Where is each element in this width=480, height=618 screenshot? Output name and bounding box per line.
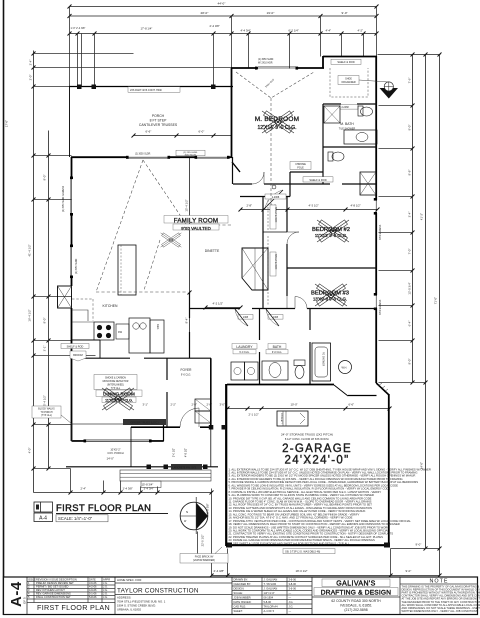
svg-text:BATH: BATH	[273, 345, 282, 349]
svg-text:8'-0": 8'-0"	[43, 175, 47, 181]
revision table	[27, 577, 115, 603]
svg-text:(2) 3050 SLDR. EGRESS: (2) 3050 SLDR. EGRESS	[63, 185, 65, 212]
svg-text:6'-4": 6'-4"	[408, 321, 412, 327]
svg-text:19'-0": 19'-0"	[267, 11, 275, 15]
svg-text:DRAFTING & DESIGN: DRAFTING & DESIGN	[321, 589, 391, 596]
left dim column	[33, 51, 35, 493]
svg-text:J.G.: J.G.	[103, 581, 108, 585]
svg-text:SHELF & ROD: SHELF & ROD	[337, 60, 354, 64]
svg-text:M. BATH: M. BATH	[340, 122, 354, 126]
wall: WC bottom	[290, 171, 323, 173]
porch front post	[209, 425, 214, 430]
svg-text:(VAPOR BARRIER): (VAPOR BARRIER)	[193, 559, 215, 562]
svg-text:9'-0": 9'-0"	[408, 125, 412, 131]
label: garage door	[283, 549, 335, 554]
wall: closet block west	[322, 104, 324, 184]
svg-text:1'-4 3/8": 1'-4 3/8"	[123, 487, 133, 491]
dim line 44'-0" top tier	[70, 6, 377, 8]
svg-text:J.G.: J.G.	[103, 592, 108, 596]
svg-text:WRITTEN DIMENSIONS ONLY - VERI: WRITTEN DIMENSIONS ONLY - VERIFY ALL JOB…	[402, 609, 479, 613]
wall: dining east / foyer	[163, 424, 165, 441]
svg-text:2'-4 3/8": 2'-4 3/8"	[214, 569, 225, 573]
svg-text:REVISION / ISSUE DESCRIPTION: REVISION / ISSUE DESCRIPTION	[36, 578, 77, 582]
wall: bath east	[309, 309, 311, 331]
label: pantry	[61, 344, 89, 349]
dim line third tier	[70, 33, 377, 35]
svg-text:FG SHOWER: FG SHOWER	[322, 352, 324, 367]
steps	[120, 470, 211, 481]
wall: dinette bay corner	[232, 162, 240, 172]
svg-text:SHELF & ROD: SHELF & ROD	[274, 207, 276, 223]
svg-text:J. GALIVAN: J. GALIVAN	[264, 578, 278, 582]
hall dim	[206, 307, 241, 309]
svg-text:4'-4": 4'-4"	[326, 29, 332, 33]
svg-text:10'-0": 10'-0"	[291, 403, 298, 407]
svg-text:TAYLOR CONSTRUCTION: TAYLOR CONSTRUCTION	[117, 588, 199, 595]
water heater	[339, 361, 352, 374]
svg-text:—: —	[289, 610, 292, 613]
kitchen island	[118, 245, 136, 295]
svg-text:41'-4 1/2": 41'-4 1/2"	[28, 244, 32, 256]
svg-text:9'X0 VAULTED: 9'X0 VAULTED	[181, 226, 210, 231]
wall: pantry	[72, 339, 101, 341]
note: girder truss	[123, 419, 166, 425]
ceiling fan: dining	[102, 388, 134, 410]
design firm: GALIVAN'S DRAFTING & DESIGN	[322, 579, 390, 587]
room label: FAMILY ROOM	[164, 216, 228, 224]
wall: west exterior	[71, 157, 73, 178]
wall: porch west edge	[130, 427, 132, 467]
bath: vanity	[262, 361, 288, 380]
door: bed2	[287, 232, 299, 244]
svg-text:3'-4": 3'-4"	[408, 212, 412, 218]
svg-text:2-GARAGE: 2-GARAGE	[282, 443, 352, 455]
window: bedroom2 east	[375, 200, 377, 213]
closet shelf dashed	[330, 68, 368, 97]
fireplace	[58, 286, 72, 308]
garage dim row	[228, 408, 390, 410]
svg-text:(TYP. ALL): (TYP. ALL)	[41, 414, 52, 417]
svg-text:28'-0": 28'-0"	[201, 11, 209, 15]
extension lines right	[379, 106, 426, 549]
svg-text:24. SEE SHEET A-1 FOR ELEVATIO: 24. SEE SHEET A-1 FOR ELEVATIONS AND SHE…	[229, 541, 350, 545]
svg-text:6'-0": 6'-0"	[199, 130, 205, 134]
svg-text:FAMILY ROOM: FAMILY ROOM	[174, 217, 219, 224]
svg-text:22'-0 1/2": 22'-0 1/2"	[201, 535, 205, 547]
svg-text:(2) 3050 SLDR.: (2) 3050 SLDR.	[135, 154, 151, 156]
svg-text:18'-0 1/2": 18'-0 1/2"	[296, 569, 308, 573]
svg-text:DESIGN:: DESIGN:	[234, 587, 245, 591]
svg-text:7'-6": 7'-6"	[408, 78, 412, 84]
svg-text:6'-6": 6'-6"	[349, 403, 355, 407]
svg-text:12'X14' 9'-0 CLG.: 12'X14' 9'-0 CLG.	[258, 125, 297, 131]
door: front entry swing	[180, 408, 199, 427]
laundry: washer/dryer	[231, 362, 245, 380]
svg-text:2-2468: 2-2468	[342, 107, 350, 109]
svg-text:2'-1 1/2": 2'-1 1/2"	[249, 413, 259, 417]
mbath: toilet	[358, 106, 363, 116]
svg-text:PORCH: PORCH	[152, 114, 165, 118]
svg-text:4'-3 1/2": 4'-3 1/2"	[309, 204, 319, 208]
wall: rear wall left wing	[71, 156, 128, 158]
svg-text:15'-8 3/4": 15'-8 3/4"	[142, 483, 154, 487]
window: dinette rear	[196, 156, 228, 158]
svg-text:3050 EGRESS: 3050 EGRESS	[380, 224, 382, 240]
wall: east exterior	[375, 56, 377, 200]
svg-text:1'-0" 2'-4 3/8": 1'-0" 2'-4 3/8"	[71, 27, 86, 30]
window: master rear	[258, 67, 296, 69]
svg-text:BLOCK WALKS: BLOCK WALKS	[38, 408, 55, 411]
bedroom wing dim row	[241, 209, 378, 211]
svg-text:41'-2": 41'-2"	[420, 213, 424, 220]
svg-text:9'-0": 9'-0"	[342, 11, 348, 15]
extension lines top	[70, 7, 377, 87]
wall: M.BATH floor	[323, 103, 341, 105]
refrigerator	[150, 320, 164, 353]
ceiling fan: bedroom2	[317, 220, 349, 242]
room label: PORCH	[139, 114, 178, 127]
svg-text:DATE ISSUED:: DATE ISSUED:	[234, 600, 252, 604]
svg-text:2'-0": 2'-0"	[29, 75, 33, 81]
note: face brick	[180, 554, 228, 564]
svg-text:BROOM: BROOM	[73, 354, 82, 357]
dashed: master tray ceiling	[236, 72, 314, 98]
label: rear window header	[176, 150, 205, 156]
door: bed3	[295, 297, 307, 309]
svg-text:1/4"=1'-0": 1/4"=1'-0"	[264, 591, 275, 595]
svg-text:62 COUNTY ROAD 300 NORTH: 62 COUNTY ROAD 300 NORTH	[331, 599, 381, 603]
svg-text:2X6 RAFT./2X6 CONT. HDR.: 2X6 RAFT./2X6 CONT. HDR.	[130, 89, 163, 92]
label: hall closet	[303, 177, 333, 182]
svg-text:9'-0 CLG.: 9'-0 CLG.	[239, 351, 249, 354]
svg-text:6'-6": 6'-6"	[146, 130, 152, 134]
svg-text:POLE: POLE	[297, 167, 304, 170]
leader: shoe organizer to diamond	[359, 80, 389, 82]
pantry: corner with shelves	[242, 248, 268, 290]
ceiling fan: family (small)	[161, 233, 182, 247]
wall: closet block rear	[323, 56, 377, 58]
svg-text:ISSUE: ISSUE	[28, 578, 36, 582]
svg-text:17'-0": 17'-0"	[5, 120, 9, 127]
svg-text:5-8-06: 5-8-06	[89, 595, 97, 599]
svg-text:4'-2": 4'-2"	[358, 29, 364, 33]
svg-text:TO PORCH: TO PORCH	[40, 412, 52, 414]
svg-text:9'-0": 9'-0"	[416, 543, 422, 547]
svg-text:LAUNDRY: LAUNDRY	[236, 345, 253, 349]
svg-text:SCALE:: SCALE:	[234, 591, 244, 595]
wall: porch west edge	[69, 87, 71, 158]
room label: LAUNDRY	[232, 344, 257, 349]
svg-text:J.G.: J.G.	[103, 588, 108, 592]
wall: garage front	[227, 544, 389, 546]
dishwasher	[116, 324, 129, 339]
svg-text:TILE SHOWER: TILE SHOWER	[339, 128, 356, 131]
svg-text:A-4 OF 5: A-4 OF 5	[264, 609, 275, 613]
svg-text:3-6-06: 3-6-06	[289, 578, 297, 582]
svg-text:REV. KITCHEN LAYOUT: REV. KITCHEN LAYOUT	[36, 588, 65, 592]
wall: dinette/master	[232, 157, 234, 184]
window: family west 2	[71, 246, 73, 276]
svg-text:MONOXIDE DETECTOR: MONOXIDE DETECTOR	[103, 381, 129, 383]
wall: hall south	[240, 196, 290, 198]
label: closet door	[340, 105, 358, 110]
wall: garage corner diagonal	[376, 383, 389, 395]
wall: bed2/bed3 divider	[287, 267, 377, 269]
label: chrome pole	[290, 162, 311, 170]
svg-text:2'-8": 2'-8"	[247, 204, 253, 208]
porch post	[92, 85, 97, 90]
svg-text:TYP. ALL: TYP. ALL	[111, 387, 121, 390]
svg-text:GALIVAN'S: GALIVAN'S	[336, 581, 375, 588]
mbath: shower corner	[324, 106, 340, 123]
sheet left border	[3, 0, 5, 615]
label: closet rods	[270, 205, 276, 229]
label: porch slab	[171, 464, 202, 470]
svg-text:J.G.: J.G.	[103, 595, 108, 599]
north compass	[180, 497, 208, 534]
svg-text:8 FT STEP: 8 FT STEP	[150, 119, 167, 123]
svg-text:N: N	[186, 510, 188, 514]
client block: TAYLOR CONSTRUCTION	[117, 578, 166, 612]
svg-text:71'-0": 71'-0"	[434, 297, 438, 304]
svg-text:(2) 3050 SLDR.: (2) 3050 SLDR.	[76, 258, 78, 274]
svg-text:2'-4": 2'-4"	[81, 487, 87, 491]
wall: bedroom west	[286, 197, 288, 233]
svg-text:15'-4 1/2": 15'-4 1/2"	[185, 199, 189, 211]
svg-text:4'-8 1/2": 4'-8 1/2"	[351, 204, 361, 208]
svg-text:3'-0 1/2": 3'-0 1/2"	[173, 448, 176, 457]
window: family room rear	[128, 156, 168, 158]
svg-text:FOYER: FOYER	[181, 368, 193, 372]
label: porch header	[128, 87, 180, 92]
svg-text:COV. PORCH: COV. PORCH	[107, 451, 123, 455]
svg-text:8 1/2" CONC. FLOOR W/ 6X6 W.W.: 8 1/2" CONC. FLOOR W/ 6X6 W.W.M.	[285, 437, 330, 441]
svg-text:SHELF & ROD: SHELF & ROD	[274, 254, 276, 270]
door: hall closet leaf	[265, 190, 283, 208]
svg-text:3050 EGRESS: 3050 EGRESS	[380, 299, 382, 315]
svg-text:SHELF & ROD: SHELF & ROD	[309, 178, 326, 182]
bath: shower	[312, 343, 331, 381]
label: master closet	[331, 59, 361, 64]
svg-text:5-1-06: 5-1-06	[89, 592, 97, 596]
svg-text:M. BEDROOM: M. BEDROOM	[255, 116, 300, 123]
svg-text:2'-8": 2'-8"	[192, 403, 197, 407]
svg-text:FIRST FLOOR PLAN: FIRST FLOOR PLAN	[37, 603, 110, 612]
svg-text:REF.: REF.	[156, 324, 160, 330]
svg-text:8'-0": 8'-0"	[408, 359, 412, 365]
svg-text:24'X24'-0": 24'X24'-0"	[285, 455, 350, 467]
svg-text:HOME SPEC. FOR:: HOME SPEC. FOR:	[117, 578, 142, 582]
svg-text:GIRDER TRUSS (LOC.): GIRDER TRUSS (LOC.)	[130, 421, 158, 425]
svg-text:CANTILEVER TRUSSES: CANTILEVER TRUSSES	[139, 123, 178, 127]
svg-text:3-6-06: 3-6-06	[289, 587, 297, 591]
wall: bath wing south	[227, 384, 334, 386]
mbath: vanity	[344, 130, 377, 144]
svg-text:9'-0 CLG.: 9'-0 CLG.	[272, 351, 282, 354]
svg-text:2468: 2468	[243, 317, 249, 319]
wall: kitchen south	[72, 357, 131, 359]
svg-text:FACE BRICK W/: FACE BRICK W/	[195, 556, 214, 559]
plan title: FIRST FLOOR PLAN	[34, 502, 168, 522]
svg-text:SHEET:: SHEET:	[234, 609, 243, 613]
room label: BATH	[268, 344, 286, 349]
svg-text:DATE: DATE	[89, 578, 96, 582]
svg-text:—: —	[289, 592, 292, 595]
svg-text:W.H.: W.H.	[342, 366, 348, 370]
svg-text:GB. 5 T3P (J.G. WAS DBL5 46): GB. 5 T3P (J.G. WAS DBL5 46)	[285, 551, 320, 554]
svg-text:8'-0": 8'-0"	[43, 318, 47, 324]
wall: dining front	[72, 440, 86, 442]
svg-text:5-8-06: 5-8-06	[264, 600, 272, 604]
svg-text:(2) 3050 SLDR.: (2) 3050 SLDR.	[258, 59, 274, 61]
wall: hall/bath south wall	[189, 308, 240, 310]
svg-text:16'-4 1/2": 16'-4 1/2"	[28, 309, 32, 321]
svg-text:LATICRETE FIN. SYS.: LATICRETE FIN. SYS.	[173, 466, 198, 469]
svg-text:7'-0": 7'-0"	[408, 249, 412, 255]
svg-text:CHECKED BY:: CHECKED BY:	[234, 582, 252, 586]
project data table	[232, 577, 312, 615]
window: family west	[71, 178, 73, 214]
svg-text:TAYLOR-A4: TAYLOR-A4	[264, 605, 279, 609]
title block dividers	[26, 577, 28, 615]
svg-text:SMOKE & CARBON: SMOKE & CARBON	[105, 377, 126, 380]
compass stem	[197, 532, 199, 563]
svg-text:SHELF & ROD: SHELF & ROD	[67, 346, 84, 349]
wall: kitchen/hall	[189, 292, 191, 318]
svg-text:PERMIT / BID SET ISSUED: PERMIT / BID SET ISSUED	[36, 585, 68, 589]
bottom overall dim line	[212, 575, 440, 577]
keyed note diamond	[380, 82, 399, 99]
note: smoke detector	[94, 375, 137, 390]
svg-text:8'-8": 8'-8"	[408, 170, 412, 176]
svg-text:44'-0": 44'-0"	[218, 2, 226, 6]
wall: laundry east	[259, 309, 261, 341]
window: dining front	[85, 440, 150, 442]
closet dashed rods	[267, 200, 269, 230]
room label: DINING ROOM	[96, 390, 142, 396]
attic stair	[277, 411, 308, 426]
window: bedroom3 east	[375, 295, 377, 308]
bottom left dim line	[34, 492, 212, 494]
porch posts	[147, 465, 152, 470]
svg-text:PRELIM. DESIGN REVIEW SET: PRELIM. DESIGN REVIEW SET	[36, 581, 74, 585]
svg-text:3-8-06: 3-8-06	[289, 582, 297, 586]
svg-text:9'-0": 9'-0"	[406, 569, 412, 573]
svg-text:11'X13' 9'-0 CLG.: 11'X13' 9'-0 CLG.	[315, 233, 347, 238]
title block frame	[4, 577, 478, 615]
ceiling fan: master	[262, 111, 294, 133]
svg-text:10'X5'-2": 10'X5'-2"	[110, 448, 120, 452]
svg-text:FIRST FLOOR PLAN: FIRST FLOOR PLAN	[56, 502, 151, 513]
svg-text:OF 5: OF 5	[23, 597, 27, 604]
wall: WC west	[289, 172, 291, 197]
window jambs	[70, 67, 377, 443]
svg-text:17'-8 1/4": 17'-8 1/4"	[141, 27, 153, 31]
svg-text:DRAWN BY:: DRAWN BY:	[234, 578, 249, 582]
svg-text:J. GALIVAN: J. GALIVAN	[264, 587, 278, 591]
svg-text:KITCHEN: KITCHEN	[103, 304, 118, 308]
svg-text:J.G.: J.G.	[289, 605, 294, 609]
porch post	[211, 85, 216, 90]
svg-text:NOTE: NOTE	[430, 579, 449, 585]
svg-text:2'-2": 2'-2"	[171, 403, 176, 407]
wall: hall north (master south)	[233, 183, 252, 185]
upper cabinets dashed	[72, 299, 93, 321]
wall: garage west	[225, 384, 227, 546]
svg-text:IVESDALE, IL 61851: IVESDALE, IL 61851	[340, 604, 372, 608]
svg-text:FINAL CONSTRUCTION SET: FINAL CONSTRUCTION SET	[36, 595, 71, 599]
door: master	[252, 172, 264, 184]
svg-text:J.G.: J.G.	[289, 600, 294, 604]
svg-text:DINETTE: DINETTE	[205, 249, 220, 253]
svg-text:2-2068: 2-2068	[272, 196, 280, 199]
ceiling fan: bedroom3	[315, 284, 347, 306]
svg-text:4-2-06: 4-2-06	[89, 585, 97, 589]
svg-text:3-6-06: 3-6-06	[89, 581, 97, 585]
right dim column	[378, 54, 441, 56]
svg-text:4-9-06: 4-9-06	[89, 588, 97, 592]
closet: foyer coat	[195, 399, 211, 411]
wall: foyer front	[131, 426, 180, 428]
svg-text:(INTERLINKED): (INTERLINKED)	[107, 385, 124, 387]
svg-text:A-4: A-4	[39, 516, 47, 522]
svg-text:ORGANIZER: ORGANIZER	[341, 81, 355, 84]
svg-text:4'-0": 4'-0"	[28, 448, 32, 454]
svg-text:2'-4": 2'-4"	[29, 60, 33, 66]
wall: foyer east / garage west upper	[210, 358, 212, 427]
dim line second tier 28/19/9	[70, 15, 377, 17]
svg-text:W/ 2X10 HDR.: W/ 2X10 HDR.	[258, 63, 273, 65]
wc: toilet	[328, 152, 333, 161]
svg-text:J.G.: J.G.	[103, 585, 108, 589]
wall: porch slab edge	[66, 466, 218, 468]
porch interior dim	[134, 135, 232, 137]
svg-text:12'-0 3/4": 12'-0 3/4"	[408, 282, 412, 294]
wall: master wing rear	[231, 67, 258, 69]
note: block walks	[32, 406, 61, 418]
svg-text:9'-0 CLG.: 9'-0 CLG.	[181, 374, 191, 377]
wall: rear porch edge	[69, 86, 233, 88]
wall: closet block step	[322, 56, 324, 68]
wall: garage east	[388, 394, 390, 546]
svg-text:APPR: APPR	[103, 578, 110, 582]
bath: toilet	[294, 360, 305, 366]
svg-text:24'-0" STORAGE TRUSS (2X2 PITC: 24'-0" STORAGE TRUSS (2X2 PITCH)	[281, 433, 333, 437]
svg-text:3'-1": 3'-1"	[143, 403, 148, 407]
svg-text:2'-4 3/8": 2'-4 3/8"	[210, 24, 220, 28]
svg-text:22X54 ATT: 22X54 ATT	[280, 413, 283, 424]
svg-text:14'-0": 14'-0"	[107, 457, 114, 461]
svg-text:SCALE: 1/4"=1'-0": SCALE: 1/4"=1'-0"	[58, 516, 93, 521]
svg-text:06-1904: 06-1904	[264, 596, 274, 600]
family room vertical dim	[189, 158, 191, 293]
svg-text:4'-8 1/2": 4'-8 1/2"	[185, 448, 188, 457]
svg-text:3'-1": 3'-1"	[43, 346, 47, 352]
wall: closet strip	[262, 197, 264, 309]
linen closet	[360, 172, 376, 195]
wall: master wing west	[231, 68, 233, 157]
door: garage service diagonal	[334, 385, 348, 396]
porch post	[77, 85, 82, 90]
svg-text:T. TAYLOR: T. TAYLOR	[264, 582, 277, 586]
svg-text:REV. GARAGE DIMENSIONS: REV. GARAGE DIMENSIONS	[36, 592, 71, 596]
svg-text:URBANA, IL 61802: URBANA, IL 61802	[117, 608, 141, 612]
svg-text:5'-4 1/2": 5'-4 1/2"	[43, 395, 47, 406]
svg-text:CAD FILE:: CAD FILE:	[234, 605, 247, 609]
svg-text:4'-2 1/2": 4'-2 1/2"	[213, 302, 224, 306]
kitchen range	[94, 322, 114, 340]
wall: dining bay frame	[72, 424, 164, 442]
